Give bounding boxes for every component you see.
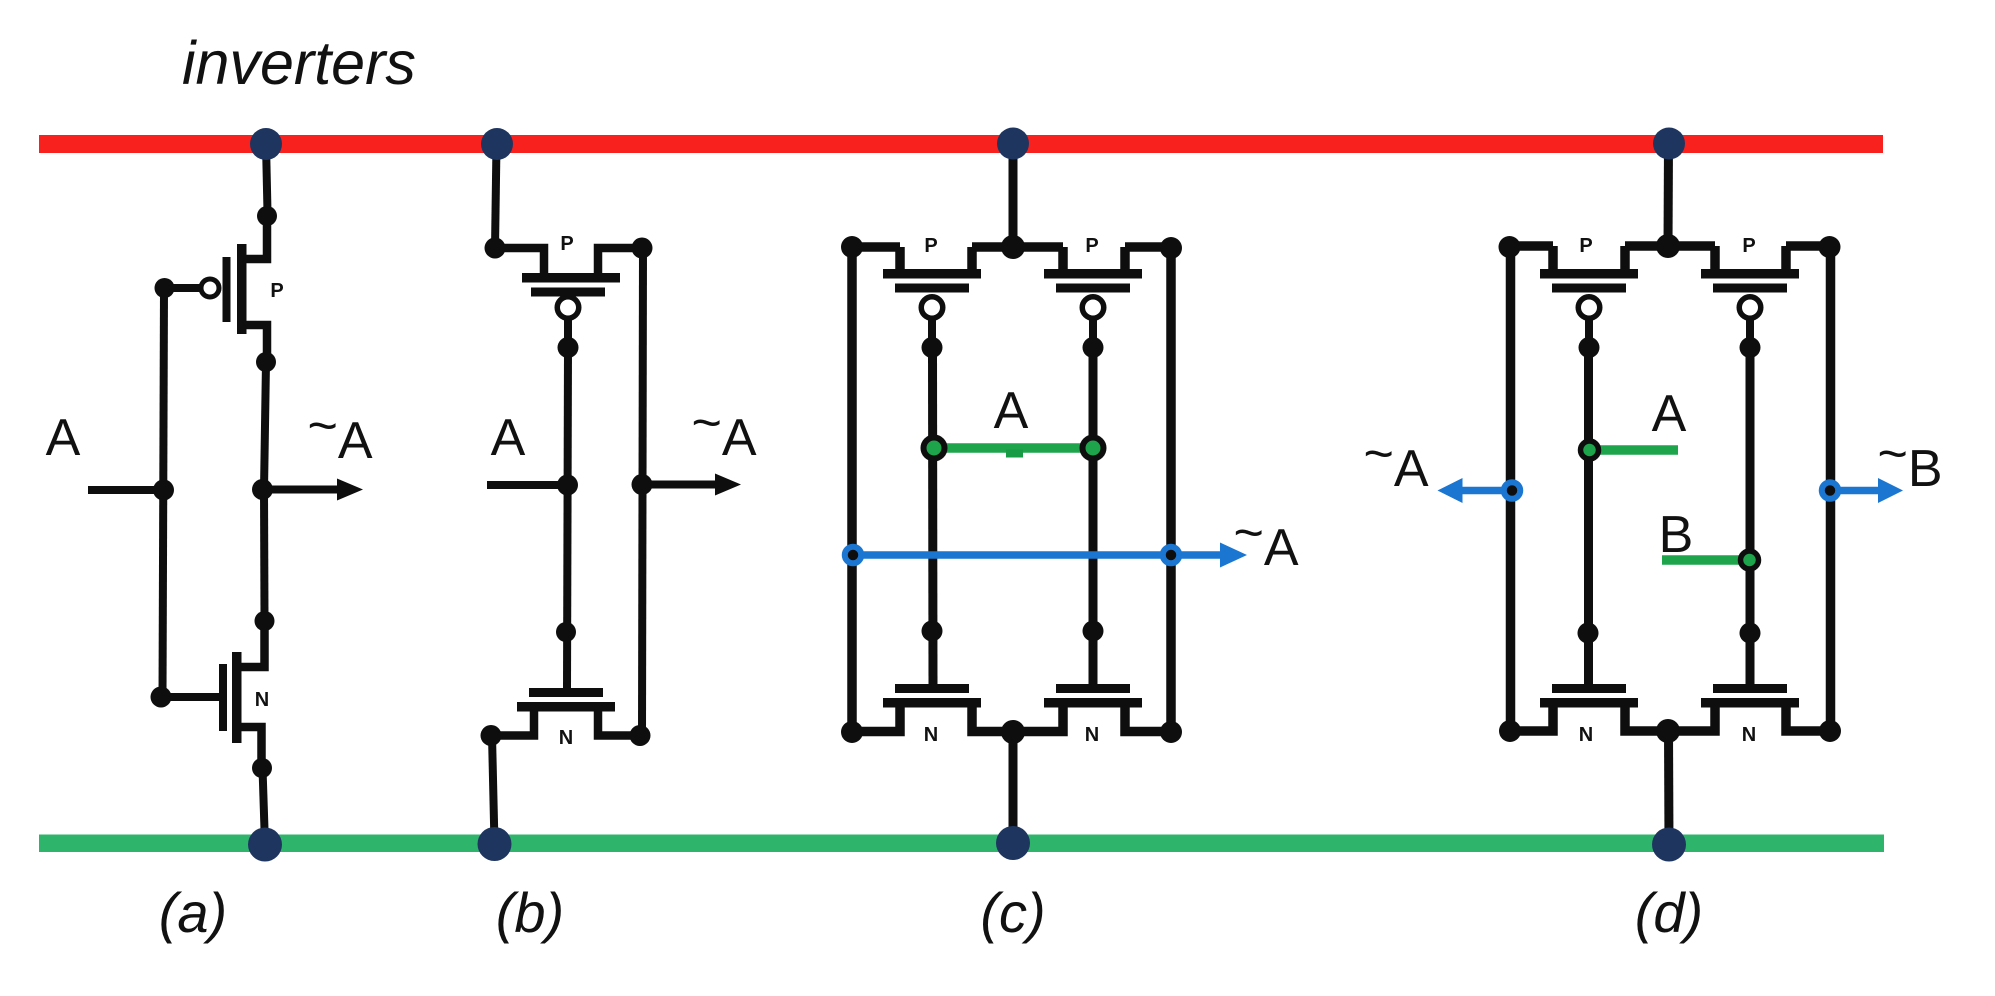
label ~A (a) <box>307 397 372 470</box>
arrowhead: (d) blue right <box>1878 478 1903 503</box>
wire: (a) source lead of N <box>237 727 262 764</box>
wire: (c) N1 drain lead <box>972 707 1013 732</box>
svg-text:A: A <box>491 409 526 467</box>
node: (c) green wire right end <box>1083 438 1104 459</box>
wire: (d) P2 drain lead <box>1781 246 1791 273</box>
label P2 (c) <box>1085 235 1098 257</box>
label N (a) <box>255 689 269 711</box>
svg-text:P: P <box>560 233 573 255</box>
node: (c) dot below P1 <box>922 621 943 642</box>
node: (c) bottom center dot <box>1001 720 1025 744</box>
wire: (c) green input wire A <box>934 443 1093 453</box>
wire: (d) N1 source lead <box>1511 707 1553 731</box>
node: (d) green B dot <box>1741 551 1759 569</box>
label N (b) <box>559 727 573 749</box>
wire: (c) N2 drain lead <box>1125 707 1170 732</box>
svg-text:(c): (c) <box>980 881 1045 944</box>
arrowhead: (b) output <box>715 474 741 496</box>
wire: (c) green wire overlap notch <box>1006 450 1023 458</box>
wire: (a) VDD to PMOS source <box>266 144 268 212</box>
node: (d) top right dot <box>1819 236 1841 258</box>
node: (d) bottom right dot <box>1819 720 1841 742</box>
svg-text:A: A <box>994 382 1029 440</box>
label N1 (c) <box>924 724 938 746</box>
label A (c) <box>994 382 1029 440</box>
wire: (d) GND drop <box>1664 731 1674 845</box>
wire: (a) input vertical line <box>163 288 165 697</box>
wire: (b) input stub <box>487 481 568 489</box>
node: (b) VDD rail junction <box>481 128 513 160</box>
wire: (a) input stub <box>88 486 164 494</box>
wire: (c) left inner input line <box>928 351 938 684</box>
node: (b) input junction dot <box>557 475 578 496</box>
wire: (d) N1 drain lead <box>1625 707 1668 731</box>
node: (c) GND rail junction <box>996 826 1030 860</box>
wire: (d) blue right arrow line <box>1830 487 1879 495</box>
label (c) <box>980 881 1045 944</box>
node: (d) GND rail junction <box>1652 828 1686 862</box>
wire: (c) N1 source lead <box>853 707 900 732</box>
node: (b) N drain dot <box>630 725 651 746</box>
node: (a) GND rail junction <box>248 828 282 862</box>
node: (a) PMOS source dot <box>257 206 277 226</box>
wire: (c) left outer line <box>847 247 857 732</box>
wire: (a) drain lead of P <box>241 325 267 358</box>
transistor Q P (a) channel bar <box>237 244 247 334</box>
node: (c) green wire left end <box>924 438 945 459</box>
wire: (d) right inner input line <box>1746 351 1755 684</box>
arrowhead: (c) blue output <box>1220 543 1247 568</box>
wire: (a) output column lower <box>260 490 269 617</box>
node: (c) top right dot <box>1160 237 1182 259</box>
wire: (c) GND drop <box>1009 732 1018 843</box>
GND power rail (green) <box>39 835 1884 853</box>
node: (c) blue line right crossing <box>1163 547 1180 564</box>
wire: (c) top bus left <box>852 242 900 252</box>
node: (a) NMOS drain dot <box>255 611 275 631</box>
label (b) <box>496 881 564 944</box>
transistor Q P1 (d) symbol <box>1540 269 1638 358</box>
wire: (b) input vertical line <box>567 348 568 688</box>
wire: (b) drain lead of N <box>598 711 640 736</box>
wire: (d) N2 drain lead <box>1786 707 1830 731</box>
wire: (d) P1 source lead <box>1548 246 1558 273</box>
svg-text:(a): (a) <box>159 881 227 944</box>
label P1 (c) <box>924 235 937 257</box>
wire: (c) P1 drain lead <box>967 247 977 274</box>
node: (d) top left dot <box>1499 236 1521 258</box>
svg-text:P: P <box>1085 235 1098 257</box>
label P (a) <box>270 280 283 302</box>
transistor Q P2 (c) symbol <box>1044 269 1142 358</box>
label A (d) <box>1652 385 1687 443</box>
node: (a) input top dot <box>155 278 175 298</box>
wire: (c) VDD drop <box>1009 144 1018 247</box>
svg-text:N: N <box>1085 724 1099 746</box>
node: (b) N source dot <box>481 725 502 746</box>
wire: (a) output column upper <box>264 362 266 490</box>
transistor Q N (a) channel bar <box>232 652 242 743</box>
label A (a) <box>46 409 81 467</box>
label ~A (d) <box>1363 425 1428 498</box>
node: (c) top center dot <box>1001 235 1025 259</box>
svg-text:A: A <box>46 409 81 467</box>
wire: (d) N2 source lead <box>1668 707 1715 731</box>
wire: (c) right outer line <box>1166 247 1176 732</box>
wire: (a) source to GND rail <box>263 768 266 845</box>
wire: (b) output vertical line <box>642 248 643 735</box>
node: (c) top left dot <box>841 236 863 258</box>
transistor Q N2 (d) symbol <box>1701 684 1799 708</box>
node: (d) blue right dot <box>1822 482 1839 499</box>
wire: (d) left inner input line <box>1584 351 1593 684</box>
wire: (a) output arrow line <box>263 486 341 494</box>
transistor Q N (a) gate bar <box>219 664 227 731</box>
label N1 (d) <box>1579 724 1593 746</box>
node: (a) VDD rail junction <box>250 128 282 160</box>
wire: (c) P1 source lead <box>895 247 905 274</box>
label P2 (d) <box>1742 235 1755 257</box>
wire: (d) green stub B <box>1662 555 1749 565</box>
node: (a) input junction dot <box>153 480 174 501</box>
svg-text:N: N <box>559 727 573 749</box>
label ~A (b) <box>691 394 756 467</box>
arrowhead: (d) blue left <box>1438 478 1463 503</box>
wire: (d) P2 source lead <box>1710 246 1720 273</box>
node: (b) P source dot <box>485 238 506 259</box>
wire: (d) top bus middle <box>1625 241 1715 251</box>
node: (d) dot below P1 <box>1578 623 1599 644</box>
label A (b) <box>491 409 526 467</box>
wire: (a) drain lead of N <box>237 621 265 667</box>
label B (d) <box>1659 506 1694 564</box>
svg-text:A: A <box>1652 385 1687 443</box>
label P (b) <box>560 233 573 255</box>
node: (d) blue left dot <box>1504 482 1521 499</box>
node: (d) dot below P2 <box>1740 623 1761 644</box>
wire: (b) source lead of N <box>492 711 534 736</box>
svg-text:P: P <box>270 280 283 302</box>
wire: (b) VDD drop <box>495 144 497 248</box>
svg-text:P: P <box>1579 235 1592 257</box>
wire: (d) blue left arrow line <box>1461 487 1513 495</box>
wire: (d) P1 drain lead <box>1620 246 1630 273</box>
wire: (c) top bus middle <box>972 242 1063 252</box>
node: (a) PMOS drain dot <box>256 352 276 372</box>
wire: (d) VDD drop <box>1664 144 1674 246</box>
arrowhead: (a) output <box>337 479 363 501</box>
label (a) <box>159 881 227 944</box>
node: (b) GND rail junction <box>478 827 512 861</box>
node: (c) bottom left dot <box>841 721 863 743</box>
node: (a) output junction dot <box>252 479 273 500</box>
node: (d) VDD rail junction <box>1653 128 1685 160</box>
wire: (d) right outer line <box>1826 246 1836 731</box>
wire: (b) output arrow line <box>642 481 718 489</box>
node: (b) output junction dot <box>632 474 653 495</box>
label N2 (d) <box>1742 724 1756 746</box>
wire: (b) source lead of P <box>495 248 544 274</box>
title text: inverters <box>182 29 416 97</box>
label ~B (d) <box>1877 425 1942 498</box>
node: (c) VDD rail junction <box>997 128 1029 160</box>
wire: (a) gate wire of N <box>161 693 219 701</box>
svg-text:N: N <box>1742 724 1756 746</box>
wire: (c) P2 drain lead <box>1120 247 1130 274</box>
svg-text:N: N <box>255 689 269 711</box>
svg-text:N: N <box>924 724 938 746</box>
wire: (c) right inner input line <box>1089 351 1098 684</box>
wire: (c) blue output line <box>853 551 1222 559</box>
wire: (d) left outer line <box>1506 246 1516 731</box>
node: (b) P drain dot <box>632 238 653 259</box>
svg-text:N: N <box>1579 724 1593 746</box>
wire: (b) N source to GND <box>492 736 495 845</box>
wire: (c) N2 source lead <box>1013 707 1063 732</box>
node: (d) bottom center dot <box>1656 719 1680 743</box>
node: (a) NMOS source dot <box>252 758 272 778</box>
node A input: (a) gate wire to bubble <box>164 284 201 292</box>
svg-text:P: P <box>1742 235 1755 257</box>
wire: (d) top bus right <box>1786 241 1830 251</box>
transistor Q P2 (d) symbol <box>1701 269 1799 358</box>
wire: (b) drain lead of P <box>598 248 642 274</box>
wire: (d) top bus left <box>1510 241 1553 251</box>
node: (c) blue line left end <box>845 547 862 564</box>
label (d) <box>1635 881 1703 944</box>
svg-text:P: P <box>924 235 937 257</box>
transistor Q N1 (c) symbol <box>883 684 981 708</box>
node: (b) dot above N gate <box>556 622 576 642</box>
transistor Q N2 (c) symbol <box>1044 684 1142 708</box>
label ~A (c) <box>1233 504 1298 577</box>
VDD power rail (red) <box>39 135 1883 153</box>
node: (d) top center dot <box>1656 234 1680 258</box>
transistor Q N (b) symbol <box>517 688 615 712</box>
wire: (c) P2 source lead <box>1058 247 1068 274</box>
svg-text:inverters: inverters <box>182 29 416 97</box>
svg-text:B: B <box>1659 506 1694 564</box>
wire: (a) source lead of P <box>241 216 267 259</box>
transistor Q N1 (d) symbol <box>1540 684 1638 708</box>
wire: (d) green stub A <box>1590 445 1678 455</box>
label P1 (d) <box>1579 235 1592 257</box>
wire: (c) top bus right <box>1125 242 1171 252</box>
transistor Q P (a) gate bar <box>223 257 231 322</box>
transistor Q P (b) symbol <box>522 273 620 358</box>
label N2 (c) <box>1085 724 1099 746</box>
transistor Q P1 (c) symbol <box>883 269 981 358</box>
node: (d) green A dot <box>1581 441 1599 459</box>
node: (d) bottom left dot <box>1499 720 1521 742</box>
node: (c) bottom right dot <box>1160 721 1182 743</box>
transistor Q P (a) gate bubble <box>201 279 219 297</box>
node: (c) dot below P2 <box>1083 621 1104 642</box>
node: (a) N gate dot <box>151 687 172 708</box>
svg-text:(b): (b) <box>496 881 564 944</box>
svg-text:(d): (d) <box>1635 881 1703 944</box>
